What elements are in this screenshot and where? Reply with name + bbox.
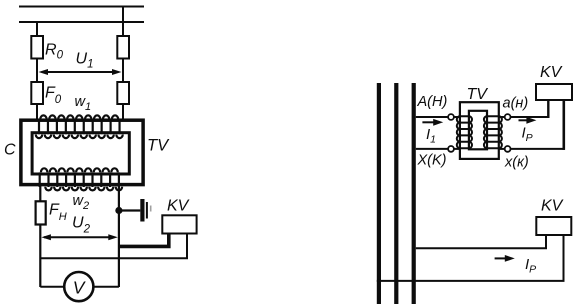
KV bottom right lead — [377, 235, 564, 281]
voltmeter V circle — [64, 272, 93, 301]
svg-text:C: C — [4, 142, 16, 159]
current arrow I1 — [422, 119, 443, 126]
wire TV to terminal a — [499, 116, 505, 118]
winding w2 lower scallops — [45, 187, 122, 191]
wire — [36, 104, 38, 121]
current arrow IP top — [519, 117, 537, 124]
terminal circle X(K) — [448, 146, 454, 152]
wire TV to terminal x — [499, 148, 505, 150]
fuse F0 (left box) — [31, 82, 43, 104]
resistor R0 (right box) — [117, 36, 129, 59]
fuse FH box — [36, 201, 46, 224]
bus bar 3 — [412, 83, 416, 304]
ground bar 1 — [140, 199, 144, 222]
resistor R0 (left box) — [31, 36, 43, 59]
terminal circle a(n) — [505, 114, 511, 120]
winding w1 ticks — [39, 120, 120, 135]
dimension arrow U1 — [39, 69, 122, 75]
wire terminal x to KV right lead — [511, 148, 565, 150]
current arrow IP bottom — [495, 255, 515, 262]
KV top right lead — [562, 100, 565, 150]
transformer TV outer box (right circuit) — [460, 102, 499, 159]
svg-text:KV: KV — [540, 64, 563, 81]
ground bar 2 — [146, 202, 148, 219]
primary winding inner scallops — [469, 116, 472, 148]
instrument KV box (top right) — [536, 84, 572, 100]
wire — [122, 104, 124, 121]
KV top left lead — [547, 100, 549, 118]
KV bottom left lead — [416, 235, 546, 248]
wire: left lead below FH — [39, 225, 41, 288]
winding w2 upper scallops — [41, 168, 118, 172]
wire: right drop from bus 1 — [122, 7, 124, 37]
svg-text:X(K): X(K) — [417, 152, 447, 168]
svg-text:x(к): x(к) — [504, 154, 529, 170]
thick lead from KV box — [119, 234, 169, 247]
svg-text:a(н): a(н) — [503, 96, 529, 112]
wire terminal a to KV — [511, 116, 550, 118]
bus bar 1 — [377, 83, 381, 304]
dimension arrow U2 — [41, 234, 117, 240]
instrument KV box (left circuit) — [162, 215, 196, 233]
svg-text:KV: KV — [167, 198, 190, 215]
terminal circle x(k) — [505, 146, 511, 152]
ground bar 3 — [150, 206, 152, 212]
junction dot — [115, 207, 122, 214]
thin lead from KV box — [40, 234, 187, 259]
bus bar 2 — [394, 83, 398, 304]
winding w1 lower scallops — [36, 135, 123, 139]
primary winding left outer scallops — [457, 116, 460, 148]
svg-text:TV: TV — [467, 86, 489, 103]
wire: voltmeter left — [40, 286, 64, 288]
secondary winding inner scallops — [484, 116, 487, 148]
winding w2 ticks — [40, 172, 119, 187]
transformer core TV outer rect — [21, 120, 143, 184]
wire: left drop from bus 2 — [36, 22, 38, 36]
fuse F0 (right box) — [117, 82, 129, 104]
wire: ground branch — [120, 209, 140, 211]
secondary winding ticks — [487, 116, 499, 148]
svg-text:TV: TV — [147, 137, 170, 155]
bus line 2 (left circuit) — [19, 21, 144, 23]
wire: voltmeter right — [93, 286, 119, 288]
instrument KV box (bottom right) — [536, 217, 571, 235]
wire: w2 left lead — [39, 186, 41, 201]
svg-text:A(H): A(H) — [417, 94, 448, 110]
wire A(H) from bus to terminal — [416, 116, 448, 118]
wire: w2 right lead down to voltmeter line — [118, 186, 120, 287]
transformer TV inner box (right circuit) — [469, 111, 487, 150]
svg-text:KV: KV — [541, 198, 564, 215]
wire — [36, 59, 38, 83]
primary winding ticks — [460, 116, 469, 148]
wire — [122, 59, 124, 83]
bus line 1 (left circuit top) — [19, 6, 144, 8]
winding w1 upper scallops — [40, 115, 118, 119]
transformer core TV inner rect — [32, 133, 129, 174]
terminal circle A(H) — [448, 114, 454, 120]
wire terminal X to TV — [454, 148, 460, 150]
wire terminal A to TV — [454, 116, 460, 118]
secondary winding right outer scallops — [499, 116, 502, 148]
wire X(K) from bus to terminal — [416, 148, 448, 150]
